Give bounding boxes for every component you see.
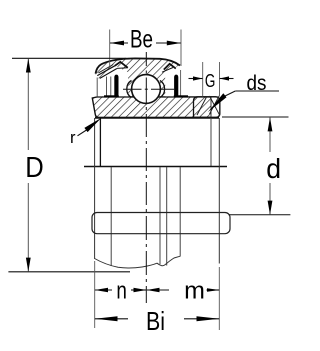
svg-text:r: r: [70, 129, 76, 147]
svg-text:d: d: [266, 153, 281, 184]
svg-text:n: n: [116, 278, 127, 305]
svg-text:D: D: [25, 152, 44, 184]
svg-text:Bi: Bi: [146, 306, 165, 336]
svg-text:G: G: [205, 71, 216, 91]
svg-text:m: m: [184, 278, 205, 305]
svg-text:Be: Be: [130, 26, 153, 54]
svg-text:ds: ds: [247, 72, 267, 95]
